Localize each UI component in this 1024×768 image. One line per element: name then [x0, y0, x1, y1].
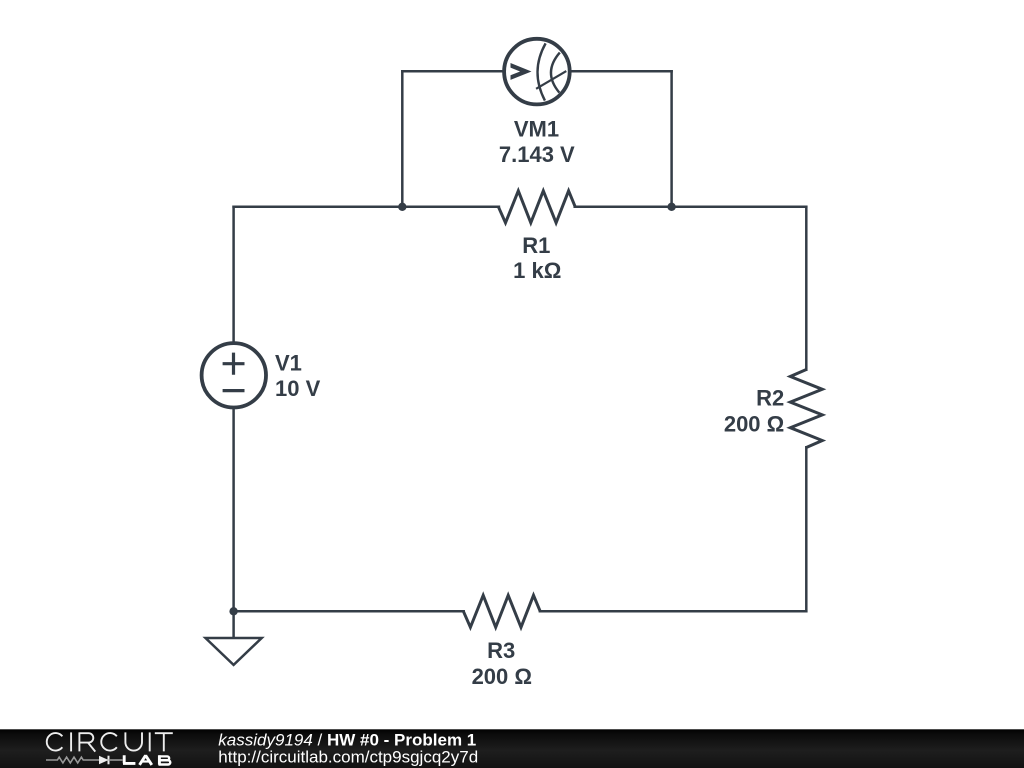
wire: right branch below R2 — [805, 447, 808, 611]
voltage source V1 minus sign — [223, 389, 245, 392]
ground symbol — [206, 638, 262, 665]
logo doodle diode — [99, 756, 109, 765]
svg-text:7.143 V: 7.143 V — [499, 142, 575, 167]
wire: right branch above R2 — [805, 207, 808, 370]
wire: voltmeter branch top — [402, 70, 671, 73]
node junction dot left of R1 — [398, 203, 406, 211]
voltmeter VM1 needle — [536, 71, 566, 89]
footer bar background — [0, 729, 1024, 768]
svg-text:R2: R2 — [756, 386, 784, 411]
wire: bottom net left segment — [234, 610, 464, 613]
wire: top net left segment — [234, 206, 499, 209]
svg-text:200 Ω: 200 Ω — [472, 664, 532, 689]
wire: voltmeter branch left riser — [401, 71, 404, 207]
svg-text:1 kΩ: 1 kΩ — [513, 258, 561, 283]
svg-text:200 Ω: 200 Ω — [724, 412, 784, 437]
wire: bottom net right segment — [540, 610, 806, 613]
voltmeter VM1 greater-than mark — [511, 63, 532, 80]
wire: ground stub — [232, 611, 235, 638]
svg-text:R3: R3 — [487, 638, 515, 663]
voltmeter VM1 scale arc 2 — [551, 53, 560, 93]
logo wordmark LAB — [123, 755, 170, 765]
svg-text:http://circuitlab.com/ctp9sgjc: http://circuitlab.com/ctp9sgjcq2y7d — [218, 747, 478, 766]
resistor R1 — [498, 191, 575, 223]
svg-text:V1: V1 — [275, 351, 302, 376]
svg-text:10 V: 10 V — [275, 376, 321, 401]
resistor R2 — [790, 370, 822, 448]
node junction dot at ground — [229, 607, 237, 615]
voltmeter VM1 body — [504, 39, 570, 105]
svg-text:R1: R1 — [522, 233, 550, 258]
logo wordmark CIRCUIT — [47, 732, 173, 751]
voltmeter VM1 scale arc 1 — [538, 43, 546, 100]
voltage source V1 body — [202, 343, 266, 407]
wire: voltmeter branch right riser — [670, 71, 673, 207]
node junction dot right of R1 — [667, 203, 675, 211]
wire: left branch through V1 — [232, 207, 235, 612]
resistor R3 — [463, 595, 540, 627]
wire: top net right segment — [575, 206, 807, 209]
logo doodle wire and resistor — [46, 757, 99, 763]
svg-text:VM1: VM1 — [514, 116, 559, 141]
voltage source V1 plus sign — [223, 353, 245, 375]
